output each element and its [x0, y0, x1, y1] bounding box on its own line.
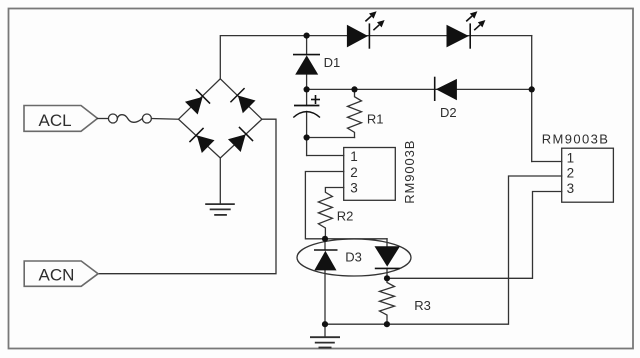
svg-text:3: 3	[350, 181, 358, 196]
svg-text:D2: D2	[440, 105, 457, 120]
svg-text:D3: D3	[345, 249, 362, 264]
svg-text:1: 1	[350, 149, 358, 164]
svg-text:ACL: ACL	[39, 111, 72, 130]
svg-text:R1: R1	[367, 112, 384, 127]
svg-text:D1: D1	[324, 55, 341, 70]
svg-text:ACN: ACN	[39, 265, 75, 284]
svg-text:1: 1	[567, 150, 575, 165]
svg-text:RM9003B: RM9003B	[402, 140, 417, 204]
svg-text:2: 2	[567, 166, 575, 181]
svg-text:R3: R3	[414, 298, 431, 313]
svg-text:2: 2	[350, 165, 358, 180]
svg-text:R2: R2	[337, 209, 354, 224]
svg-text:RM9003B: RM9003B	[542, 131, 610, 146]
svg-text:3: 3	[567, 181, 575, 196]
